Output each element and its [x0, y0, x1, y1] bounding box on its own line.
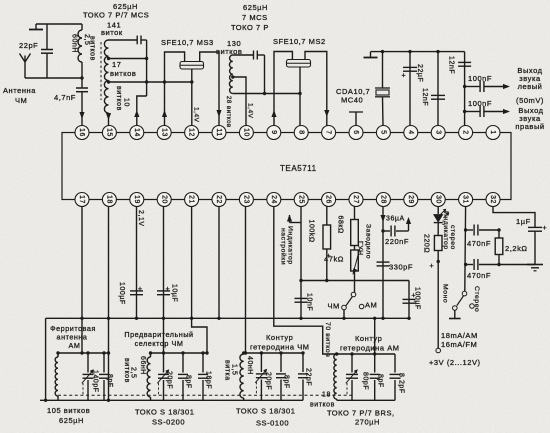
LED stereo indicator — [434, 206, 450, 223]
wire T1 top to capacitor — [109, 39, 138, 41]
svg-text:МС40: МС40 — [341, 96, 363, 105]
label T2 7 MCS — [242, 13, 268, 22]
resistor 68k — [337, 206, 359, 246]
wire pin 21 jog to preselector — [192, 318, 209, 354]
svg-text:9: 9 — [270, 130, 277, 134]
label TOKO S 18/301 SS-0200 — [135, 408, 194, 427]
svg-text:селектор ЧМ: селектор ЧМ — [135, 339, 184, 348]
trimmer 140pF — [82, 353, 99, 400]
svg-text:16mA/FM: 16mA/FM — [441, 340, 477, 349]
label GUN — [357, 224, 372, 259]
label output right — [515, 106, 544, 131]
ground bus A — [46, 317, 409, 319]
svg-text:виток: виток — [101, 28, 123, 37]
svg-text:5: 5 — [380, 130, 387, 134]
svg-text:18pF: 18pF — [205, 371, 212, 389]
tank1 top rail — [56, 351, 110, 354]
arrow into pin 7 — [324, 110, 329, 117]
arrow out of pin 14 — [134, 110, 139, 117]
arrow into pin 15 — [106, 113, 111, 126]
label TOKO 7 P/7 BRS 270uH — [327, 409, 395, 427]
svg-text:18: 18 — [322, 392, 331, 399]
svg-text:АМ: АМ — [69, 341, 81, 350]
svg-text:стерео: стерео — [449, 225, 456, 250]
trimmer 20pF tank2 — [157, 353, 172, 400]
svg-text:гетеродина АМ: гетеродина АМ — [340, 344, 400, 353]
svg-text:330pF: 330pF — [389, 263, 413, 272]
svg-text:10nF: 10nF — [306, 293, 313, 311]
filter MS2 body — [287, 60, 311, 68]
svg-text:66нН: 66нН — [139, 356, 146, 375]
svg-text:28: 28 — [380, 195, 387, 204]
svg-text:14: 14 — [133, 128, 140, 137]
wire antenna to coil — [25, 77, 82, 79]
arrow into pin 11 — [216, 110, 221, 117]
svg-text:20: 20 — [160, 195, 167, 204]
svg-text:SFE10,7 MS2: SFE10,7 MS2 — [273, 37, 326, 46]
svg-text:Контур: Контур — [266, 333, 293, 342]
svg-text:8: 8 — [297, 130, 304, 134]
svg-text:13: 13 — [160, 128, 167, 137]
arrow out of pin 9 — [271, 110, 276, 117]
capacitor 22pF — [19, 24, 53, 78]
resistor 100k — [308, 206, 332, 282]
svg-text:1: 1 — [489, 130, 496, 134]
wire T2 cap down — [264, 55, 266, 94]
svg-text:29: 29 — [407, 195, 414, 204]
svg-text:ГУН: ГУН — [357, 241, 364, 256]
arrow out of pin 28 — [380, 215, 385, 222]
label TOKO S 18/301 SS-0100 — [236, 407, 295, 428]
label SFE10,7 MS3 — [161, 38, 214, 47]
resistor 220R — [423, 223, 443, 254]
filter MS3 body — [180, 62, 204, 70]
svg-text:625µH: 625µH — [243, 3, 268, 12]
top-right bus — [371, 51, 465, 53]
wire pin 17 drop — [80, 206, 83, 353]
transformer T2 winding — [229, 55, 232, 94]
wire to pin 14 — [137, 96, 147, 126]
svg-text:25: 25 — [297, 195, 304, 204]
svg-text:+: + — [138, 286, 143, 293]
resistor 2,2k — [495, 228, 527, 266]
svg-text:17: 17 — [78, 195, 85, 204]
svg-text:70 витков: 70 витков — [324, 322, 331, 357]
svg-text:1µF: 1µF — [516, 217, 531, 226]
label 10 vitkov rotated — [115, 86, 130, 111]
capacitor 470nF lower — [466, 259, 535, 280]
label 18 vitkov — [310, 392, 335, 409]
svg-text:100µF: 100µF — [414, 287, 421, 310]
capacitor 470nF upper — [466, 225, 499, 249]
op-amp U1 TEA5711 body — [62, 133, 511, 200]
capacitor 22uF — [402, 50, 424, 126]
svg-text:12nF: 12nF — [421, 88, 428, 106]
inductor 70 vitkov — [334, 354, 337, 400]
svg-text:21: 21 — [188, 195, 195, 204]
capacitor 100uF (AM line) — [403, 281, 421, 320]
svg-text:1,4V: 1,4V — [193, 107, 200, 123]
label 1,4V at pin 12 — [193, 107, 200, 123]
bus A left drop — [44, 318, 47, 402]
svg-text:ТОКО S 18/301: ТОКО S 18/301 — [236, 407, 295, 416]
svg-text:36µА: 36µА — [386, 216, 405, 223]
svg-text:+3V (2...12V): +3V (2...12V) — [429, 358, 481, 367]
tank2 top rail — [149, 351, 207, 354]
trimmer 20pF tank2 gang tail — [158, 383, 160, 395]
capacitor 22pF tank3 — [298, 353, 312, 400]
trimmer 80pF — [346, 354, 369, 400]
svg-text:15: 15 — [106, 128, 113, 137]
svg-text:ТОКО 7 Р: ТОКО 7 Р — [231, 23, 269, 32]
svg-text:правый: правый — [515, 122, 544, 131]
terminal pin 6 (T-bar) — [349, 112, 363, 126]
wire pin 24 drop to FM/AM osc coil — [274, 206, 337, 354]
label 70 vitkov — [324, 322, 331, 357]
capacitor 10uF (pin 20) — [157, 206, 178, 353]
wire tank4 to bus A — [373, 317, 376, 354]
svg-text:+: + — [430, 263, 435, 270]
inductor ferrite 105 vitkov — [55, 353, 58, 400]
capacitor 12nF (pin 2) — [448, 56, 472, 74]
capacitor 4,7nF — [54, 78, 88, 126]
supply rail — [430, 251, 440, 349]
svg-text:68кΩ: 68кΩ — [337, 216, 344, 234]
capacitor 10nF — [295, 293, 313, 311]
svg-text:22µF: 22µF — [416, 64, 423, 82]
filter MS2 left lead to pin 9 — [274, 52, 292, 127]
wire pin 2 riser — [464, 52, 466, 126]
capacitor 100uF (pin 19) — [118, 206, 143, 320]
svg-text:140pF: 140pF — [92, 370, 99, 393]
ground rail bottom — [40, 399, 395, 401]
capacitor C-T2 (coupling) — [254, 51, 265, 60]
label 28 vitkov rotated — [225, 96, 231, 128]
svg-text:Индикатор: Индикатор — [442, 211, 449, 250]
svg-text:Антенна: Антенна — [3, 86, 36, 95]
svg-text:19: 19 — [133, 195, 140, 204]
svg-text:TEA5711: TEA5711 — [280, 164, 317, 173]
wire T1 tap1 — [109, 57, 149, 60]
wire pin 25 drop — [299, 206, 302, 320]
capacitor 100nF right out — [465, 99, 510, 117]
svg-text:220Ω: 220Ω — [423, 234, 430, 253]
svg-text:18mA/АМ: 18mA/АМ — [441, 331, 478, 340]
filter MS3 ground lead to pin 12 — [190, 69, 193, 126]
inductor 66nH 2,5 vitkov — [123, 353, 151, 400]
svg-text:витка: витка — [224, 360, 231, 381]
switch mono/stereo — [442, 284, 481, 312]
svg-text:18: 18 — [106, 195, 113, 204]
svg-text:31: 31 — [462, 195, 469, 204]
svg-text:17: 17 — [112, 60, 121, 69]
svg-text:22: 22 — [215, 195, 222, 204]
svg-text:22pF: 22pF — [19, 41, 38, 50]
capacitor 8pF tank2 — [178, 353, 192, 400]
label kontur geterodina AM — [340, 334, 400, 353]
svg-text:100kΩ: 100kΩ — [308, 220, 315, 243]
trimmer 20pF tank3 — [255, 353, 271, 400]
svg-text:7 MCS: 7 MCS — [242, 13, 268, 22]
potentiometer 47k — [324, 246, 360, 276]
label 17 vitkov — [110, 60, 136, 78]
svg-text:100nF: 100nF — [468, 99, 492, 108]
inductor 60nH 2,5 turns — [71, 24, 96, 78]
label FM preselector — [124, 330, 193, 348]
node T1 tap1 — [107, 57, 110, 60]
filter MS3 right lead to pin 11 — [200, 52, 219, 126]
svg-text:32: 32 — [489, 195, 496, 204]
wire pin 21 drop — [190, 206, 193, 320]
svg-text:SS-0100: SS-0100 — [256, 419, 289, 428]
label 105 vitkov — [47, 406, 90, 425]
node 470nF-1 — [464, 228, 467, 231]
wire T2 tap to pin 10 — [233, 77, 246, 126]
svg-text:8pF: 8pF — [283, 375, 290, 389]
wire rail y=93.5 (T2 to MS2) — [233, 92, 300, 95]
wire AM line y=280.5 — [301, 280, 409, 282]
tank3 top rail — [242, 351, 305, 354]
node 470nF-2 — [464, 263, 467, 266]
svg-text:левый: левый — [518, 82, 543, 91]
capacitor 8pF tank3 — [276, 353, 290, 400]
svg-text:105 витков: 105 витков — [47, 406, 90, 415]
capacitor 12nF (pin 3) — [421, 50, 445, 126]
svg-text:ТОКО 7 Р/7 BRS,: ТОКО 7 Р/7 BRS, — [327, 409, 395, 418]
capacitor 330pF — [377, 262, 414, 271]
svg-text:22pF: 22pF — [305, 368, 312, 386]
label T2 TOKO 7 P — [231, 23, 269, 32]
svg-text:Индикатор: Индикатор — [287, 226, 294, 265]
svg-text:настройки: настройки — [280, 228, 288, 265]
capacitor 8pF tank4 — [370, 354, 384, 400]
IC top pins 16..1 — [75, 126, 500, 140]
svg-text:16: 16 — [78, 128, 85, 137]
svg-text:2,2kΩ: 2,2kΩ — [505, 244, 528, 253]
wire T2 top to capacitor — [233, 54, 253, 56]
label T1 625uH — [113, 2, 138, 11]
svg-text:20pF: 20pF — [265, 372, 272, 390]
svg-text:витков: витков — [110, 69, 136, 78]
svg-text:6: 6 — [352, 130, 359, 134]
wire FM contact to bus — [342, 310, 345, 320]
svg-text:+: + — [543, 225, 548, 232]
svg-text:12nF: 12nF — [448, 56, 455, 74]
node A (antenna/coil junction) — [80, 76, 83, 79]
svg-text:20pF: 20pF — [166, 371, 173, 389]
label ferrite antenna — [50, 324, 96, 350]
svg-text:Стерео: Стерео — [473, 286, 480, 312]
svg-text:ЧМ: ЧМ — [328, 302, 340, 311]
switch FM/AM — [328, 271, 378, 311]
svg-text:ТОКО 7 Р/7 MCS: ТОКО 7 Р/7 MCS — [83, 11, 149, 20]
svg-text:1,5: 1,5 — [231, 364, 238, 375]
filter MS2 right lead to pin 7 — [305, 52, 327, 127]
svg-text:2: 2 — [462, 130, 469, 134]
label 1,4V at pin 10 — [247, 103, 254, 119]
svg-text:100nF: 100nF — [468, 74, 492, 83]
node pin25/10nF — [299, 279, 302, 282]
supply terminal +3V — [429, 348, 481, 367]
ground at 1uF — [527, 265, 543, 271]
svg-text:60nH: 60nH — [71, 34, 78, 53]
node T1 tap2 — [107, 80, 110, 83]
svg-text:витков: витков — [89, 36, 96, 61]
tank4 top rail — [335, 352, 395, 355]
svg-text:+: + — [166, 286, 171, 293]
label 130 vitkov — [216, 39, 242, 56]
svg-text:80pF: 80pF — [362, 372, 369, 390]
svg-text:24: 24 — [270, 195, 277, 204]
IC bottom pins 17..32 — [75, 193, 500, 207]
svg-text:10µF: 10µF — [171, 284, 178, 302]
label SFE10,7 MS2 — [273, 37, 326, 46]
svg-text:10: 10 — [243, 128, 250, 137]
label 2,1V at pin 19 — [137, 210, 144, 227]
svg-text:7: 7 — [325, 130, 332, 134]
node pin28/220nF — [381, 229, 384, 232]
svg-text:(50mV): (50mV) — [516, 96, 544, 105]
svg-text:Контур: Контур — [355, 334, 382, 343]
arrow into pin 16 — [79, 112, 84, 119]
svg-text:+: + — [402, 73, 407, 80]
svg-text:4,7nF: 4,7nF — [54, 93, 76, 102]
svg-text:8,2pF: 8,2pF — [398, 373, 405, 394]
label T2 625uH — [243, 3, 268, 12]
svg-text:220nF: 220nF — [385, 237, 409, 246]
svg-text:11: 11 — [215, 128, 222, 136]
svg-text:SS-0200: SS-0200 — [152, 418, 185, 427]
svg-text:1,4V: 1,4V — [247, 103, 254, 119]
transformer T1 winding — [104, 40, 108, 113]
svg-text:Моно: Моно — [442, 284, 449, 303]
gang tuning dashed line — [58, 394, 352, 396]
svg-text:4: 4 — [407, 130, 414, 134]
svg-text:Заводило: Заводило — [365, 224, 372, 259]
trimmer 80pF gang tail — [346, 383, 348, 395]
wire pin 28 drop — [381, 206, 384, 320]
inductor 40nH 1,5 vitka — [224, 353, 254, 400]
wire pin 31 drop — [464, 206, 467, 291]
capacitor 18pF tank2 — [198, 353, 212, 400]
svg-text:8pF: 8pF — [185, 375, 192, 389]
svg-text:10: 10 — [123, 98, 130, 107]
capacitor 8,2pF tank4 — [390, 354, 405, 400]
wire cap down to rail — [146, 40, 148, 96]
node pin2/output-L — [463, 85, 466, 88]
transformer T1 core (dashed) — [100, 42, 102, 100]
svg-text:625µH: 625µH — [59, 416, 84, 425]
capacitor 8pF tank1 — [99, 353, 113, 400]
svg-text:23: 23 — [243, 195, 250, 204]
svg-text:27: 27 — [352, 195, 359, 204]
label output left — [516, 66, 544, 105]
svg-text:витков: витков — [123, 358, 130, 383]
arrow out of pin 13 — [162, 110, 167, 117]
wire mono contact to ground bar — [449, 310, 461, 318]
trimmer 140pF gang tail — [82, 383, 84, 395]
resonator CDA10,7 MC40 — [336, 50, 390, 126]
label current draw — [441, 331, 478, 349]
svg-text:100µF: 100µF — [118, 282, 125, 305]
ground (FM antenna input) — [29, 24, 43, 30]
tuning indicator arrow — [287, 215, 301, 223]
node T2 tap — [231, 75, 234, 78]
svg-text:витков: витков — [115, 86, 122, 111]
svg-text:12: 12 — [188, 128, 195, 137]
label T1 141 vitok — [101, 21, 123, 38]
capacitor 220nF to pin 29 — [383, 216, 411, 247]
svg-text:28 витков: 28 витков — [225, 96, 231, 128]
capacitor 100nF left out — [465, 74, 510, 92]
svg-text:гетеродина ЧМ: гетеродина ЧМ — [250, 343, 310, 352]
label stereo indicator — [442, 211, 456, 250]
svg-text:2,1V: 2,1V — [137, 210, 144, 227]
svg-text:2,5: 2,5 — [130, 367, 137, 378]
filter MS3 left lead to pin 13 — [163, 52, 185, 126]
wire pin 22 drop — [217, 206, 220, 320]
svg-text:8pF: 8pF — [377, 374, 384, 388]
label T1 TOKO 7 P/7 MCS — [83, 11, 149, 20]
svg-text:витков: витков — [310, 402, 335, 409]
trimmer 20pF tank3 gang tail — [255, 382, 257, 395]
label tuning indicator — [280, 226, 294, 265]
svg-text:Предварительный: Предварительный — [124, 330, 193, 339]
svg-text:ТОКО S 18/301: ТОКО S 18/301 — [135, 408, 194, 417]
ground at bus — [364, 52, 378, 58]
svg-text:270µH: 270µH — [355, 418, 380, 427]
capacitor C-T1 (coupling) — [137, 36, 146, 45]
svg-text:40нН: 40нН — [246, 356, 253, 375]
svg-text:26: 26 — [325, 195, 332, 204]
wire pin 18 drop — [107, 206, 110, 402]
capacitor 1uF — [516, 217, 547, 265]
wire rail y=82 (T1 to MS3) — [109, 80, 192, 83]
svg-text:470nF: 470nF — [467, 271, 491, 280]
svg-text:8pF: 8pF — [106, 374, 113, 388]
svg-text:ЧМ: ЧМ — [15, 96, 27, 105]
antenna FM — [3, 54, 36, 106]
label kontur geterodina FM — [250, 333, 310, 352]
svg-text:SFE10,7 MS3: SFE10,7 MS3 — [161, 38, 214, 47]
svg-text:47kΩ: 47kΩ — [324, 255, 344, 264]
svg-text:470nF: 470nF — [467, 239, 491, 248]
wire pin 23 drop — [245, 206, 247, 353]
node pin2/output-R — [463, 110, 466, 113]
svg-text:30: 30 — [434, 195, 441, 204]
svg-text:АМ: АМ — [365, 301, 377, 310]
svg-text:3: 3 — [434, 130, 441, 134]
wire pin 32 to 1uF — [493, 206, 535, 227]
filter MS2 ground lead to pin 8 — [298, 67, 301, 126]
wire top-left y=24 — [36, 23, 82, 25]
